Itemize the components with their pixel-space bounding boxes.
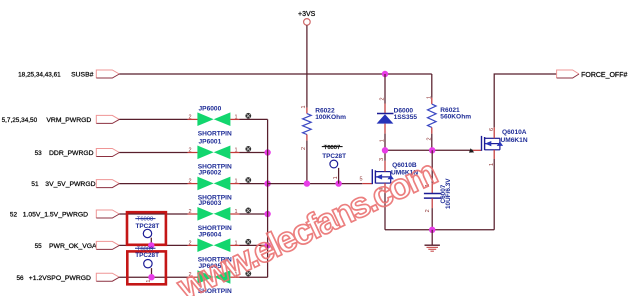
port flag VRM_PWRGD [96, 115, 119, 123]
svg-text:T6008: T6008 [137, 217, 153, 223]
wire C6007 top [431, 150, 433, 183]
svg-text:1SS355: 1SS355 [394, 114, 418, 121]
wire R6021 top [431, 74, 433, 98]
port flag +1.2VSPO_PWRGD [96, 273, 119, 281]
wire JP6003 to bus [240, 213, 268, 215]
svg-text:JP6001: JP6001 [199, 139, 222, 146]
wire 1.05V_1.5V_PWRGD to JP6003 [119, 213, 187, 215]
wire JP6000 to bus [240, 118, 268, 120]
highlight box T6009 [127, 251, 166, 284]
wire JP6003 pin2 stub [188, 213, 198, 215]
junction bus row PWR_OK_VGA [264, 242, 270, 248]
wire +3VS to R6022 [306, 25, 308, 107]
svg-text:2: 2 [188, 209, 191, 215]
wire Q6010B drain [384, 150, 386, 160]
wire JP6001 to bus [240, 152, 268, 154]
svg-text:1: 1 [146, 280, 152, 283]
testpoint T6009 circle [144, 260, 152, 268]
svg-text:DDR_PWRGD: DDR_PWRGD [49, 150, 94, 157]
ground [431, 230, 433, 245]
svg-text:56: 56 [17, 275, 25, 282]
svg-text:53: 53 [35, 150, 43, 157]
svg-text:18,25,34,43,61: 18,25,34,43,61 [18, 72, 61, 79]
junction bus row 1.05V_1.5V_PWRGD [264, 211, 270, 217]
wire C6007 bottom [431, 208, 433, 230]
junction rail/C6007/ground [429, 227, 435, 233]
svg-text:1.05V_1.5V_PWRGD: 1.05V_1.5V_PWRGD [23, 212, 88, 219]
wire Q6010B source down [384, 192, 386, 230]
jumper JP6000 SHORTPIN [197, 112, 213, 126]
wire DDR_PWRGD to JP6001 [119, 152, 187, 154]
port flag 3V_5V_PWRGD [96, 180, 119, 188]
wire R6022 bottom stub [306, 135, 308, 141]
testpoint T6008 circle [143, 229, 151, 237]
svg-text:Q6010A: Q6010A [502, 129, 527, 136]
wire JP6001 pin1 stub [230, 152, 239, 154]
svg-text:1: 1 [379, 139, 385, 142]
no-connect mark JP6001 [245, 146, 251, 152]
no-connect mark JP6002 [245, 177, 251, 183]
wire JP6001 pin2 stub [188, 152, 198, 154]
wire R6021 bottom stub [431, 127, 433, 133]
svg-text:1: 1 [301, 105, 307, 108]
wire source rail [385, 229, 494, 231]
wire Q6010A drain up [494, 74, 556, 127]
wire JP6002 pin2 stub [188, 183, 198, 185]
svg-text:1: 1 [426, 96, 432, 99]
wire JP6000 pin1 stub [230, 118, 239, 120]
jumper JP6002 SHORTPIN [197, 177, 213, 191]
svg-text:PWR_OK_VGA: PWR_OK_VGA [49, 243, 97, 250]
resistor R6021 [428, 104, 437, 127]
svg-text:2: 2 [426, 137, 432, 140]
wire Q6010A source down [493, 159, 495, 230]
svg-text:VRM_PWRGD: VRM_PWRGD [46, 117, 91, 124]
wire C6007 bottom stub [431, 198, 433, 208]
svg-text:5,7,25,34,50: 5,7,25,34,50 [2, 117, 38, 124]
wire JP6004 pin1 stub [230, 244, 239, 246]
transistor Q6010A [481, 136, 483, 151]
svg-text:FORCE_OFF#: FORCE_OFF# [581, 72, 627, 79]
wire R6021 to gate line [431, 134, 433, 151]
wire D6000 top stub [384, 104, 386, 114]
no-connect mark JP6005 [245, 271, 251, 277]
wire JP6002 to bus [240, 183, 268, 185]
port flag PWR_OK_VGA [96, 241, 119, 249]
svg-text:2: 2 [425, 209, 431, 212]
svg-text:52: 52 [10, 212, 18, 219]
svg-text:2: 2 [379, 97, 385, 100]
wire R6022 to gate line [306, 141, 308, 184]
svg-text:100KOhm: 100KOhm [315, 114, 346, 121]
svg-text:JP6000: JP6000 [199, 105, 222, 112]
svg-text:2: 2 [301, 147, 307, 150]
wire Q6010A gate stub [473, 149, 482, 151]
svg-text:JP6002: JP6002 [199, 170, 222, 177]
svg-text:JP6004: JP6004 [199, 231, 222, 238]
wire R6022 top stub [306, 108, 308, 114]
jumper JP6004 SHORTPIN [197, 238, 213, 252]
junction R6022/gate line [304, 180, 310, 186]
junction T6009/+1.2VSPO [148, 274, 154, 280]
port flag 1.05V_1.5V_PWRGD [96, 210, 119, 218]
svg-text:560KOhm: 560KOhm [440, 113, 471, 120]
testpoint T6007 circle [330, 160, 338, 168]
wire JP6000 pin2 stub [188, 118, 198, 120]
junction T6007/gate line [335, 180, 341, 186]
wire C6007 top stub [431, 183, 433, 193]
wire Q6010B gate stub [362, 183, 372, 185]
wire T6009 pin [151, 268, 153, 277]
wire SUSB# horizontal [119, 73, 432, 75]
svg-text:SUSB#: SUSB# [71, 72, 94, 79]
capacitor C6007 [424, 193, 442, 195]
jumper JP6001 SHORTPIN [197, 146, 213, 160]
svg-text:JP6003: JP6003 [199, 200, 222, 207]
svg-text:SHORTPIN: SHORTPIN [198, 130, 232, 137]
wire JP6002 pin1 stub [230, 183, 239, 185]
junction bus row 3V_5V_PWRGD [264, 180, 270, 186]
junction bus row DDR_PWRGD [264, 149, 270, 155]
wire R6021 top stub [431, 98, 433, 104]
wire Q6010B drain stub [384, 161, 386, 172]
svg-text:2: 2 [188, 148, 191, 154]
wire 3V_5V_PWRGD to JP6002 [119, 183, 187, 185]
svg-text:1: 1 [333, 176, 339, 179]
wire JP6004 pin2 stub [188, 244, 198, 246]
svg-text:55: 55 [35, 243, 43, 250]
wire D6000 bottom stub [384, 124, 386, 134]
no-connect mark JP6004 [245, 239, 251, 245]
wire JP6003 pin1 stub [230, 213, 239, 215]
wire D6000 node to Q6010A gate [385, 149, 473, 151]
wire VRM_PWRGD to JP6000 [119, 118, 187, 120]
svg-text:TPC28T: TPC28T [322, 153, 346, 160]
svg-text:2: 2 [188, 240, 191, 246]
svg-text:T6007: T6007 [324, 145, 340, 151]
transistor Q6010B [371, 169, 373, 184]
wire jumper output bus [267, 119, 269, 277]
svg-text:TPC28T: TPC28T [135, 252, 159, 259]
svg-text:2: 2 [188, 114, 191, 120]
wire T6008 pin [150, 238, 152, 246]
svg-text:UM6K1N: UM6K1N [501, 137, 528, 144]
jumper JP6003 SHORTPIN [197, 207, 213, 221]
port flag FORCE_OFF# [557, 70, 579, 78]
wire D6000 top [384, 74, 386, 104]
wire +1.2VSPO_PWRGD to JP6005 [119, 276, 187, 278]
wire JP6005 pin1 stub [230, 276, 239, 278]
junction gateB C6007 [429, 147, 435, 153]
wire JP6005 pin2 stub [188, 276, 198, 278]
wire Q6010A source stub [493, 150, 495, 159]
power +3VS symbol [304, 19, 311, 26]
port flag DDR_PWRGD [96, 149, 119, 157]
svg-text:3: 3 [379, 158, 385, 161]
highlight box T6008 [127, 212, 166, 245]
junction T6008/PWR_OK_VGA [148, 242, 154, 248]
svg-text:+3VS: +3VS [298, 11, 316, 18]
wire JP6004 to bus [240, 244, 268, 246]
wire D6000 to gate line [384, 134, 386, 151]
junction gateB left [382, 147, 388, 153]
jumper JP6005 SHORTPIN [197, 270, 213, 284]
svg-text:3V_5V_PWRGD: 3V_5V_PWRGD [45, 181, 95, 188]
port flag SUSB# [96, 70, 119, 78]
resistor R6022 [303, 114, 312, 135]
diode D6000 [377, 113, 394, 115]
wire bus to Q6010B gate [268, 183, 363, 185]
no-connect mark JP6000 [245, 113, 251, 119]
wire Q6010A drain stub [493, 127, 495, 138]
svg-text:10UF/6.3V: 10UF/6.3V [445, 178, 452, 209]
no-connect mark JP6003 [245, 208, 251, 214]
junction SUSB#/D6000 [382, 71, 388, 77]
net direction mark [469, 148, 474, 152]
svg-text:2: 2 [188, 179, 191, 185]
wire PWR_OK_VGA to JP6004 [119, 244, 187, 246]
wire Q6010B source stub [384, 183, 386, 192]
wire JP6005 to bus [240, 276, 268, 278]
wire T6007 pin [338, 168, 340, 184]
svg-text:+1.2VSPO_PWRGD: +1.2VSPO_PWRGD [29, 275, 91, 282]
svg-text:51: 51 [31, 181, 39, 188]
